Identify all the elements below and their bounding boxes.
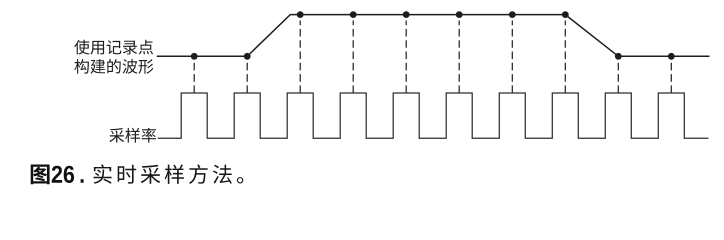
caption text (实时采样方法。) <box>94 164 244 184</box>
record point dot 6 <box>456 11 463 18</box>
dashed sample line 2 <box>246 60 248 93</box>
dashed sample line 3 <box>299 21 301 94</box>
dashed sample line 5 <box>405 21 407 94</box>
label: waveform built from record points, line 1 (使用记录点) <box>74 40 153 55</box>
record point dot 5 <box>403 11 410 18</box>
record-point waveform trace <box>157 15 710 57</box>
dashed sample line 1 <box>193 60 195 93</box>
record point dot 2 <box>244 53 251 60</box>
dashed sample line 6 <box>458 21 460 94</box>
record point dot 3 <box>297 11 304 18</box>
dashed sample line 10 <box>670 60 672 93</box>
label: sample rate (采样率) <box>109 128 156 143</box>
record point dot 8 <box>562 11 569 18</box>
record point dot 9 <box>615 53 622 60</box>
label: waveform built from record points, line 2 (构建的波形) <box>74 59 153 74</box>
dashed sample line 8 <box>564 21 566 94</box>
record point dot 4 <box>350 11 357 18</box>
dashed sample line 7 <box>511 21 513 94</box>
record point dot 7 <box>509 11 516 18</box>
record point dot 10 <box>668 53 675 60</box>
dashed sample line 4 <box>352 21 354 94</box>
caption figure number bold (图) <box>31 165 50 185</box>
sample clock square wave <box>158 93 709 138</box>
record point dot 1 <box>191 53 198 60</box>
dashed sample line 9 <box>617 60 619 93</box>
caption figure number bold (26.) <box>52 166 84 183</box>
